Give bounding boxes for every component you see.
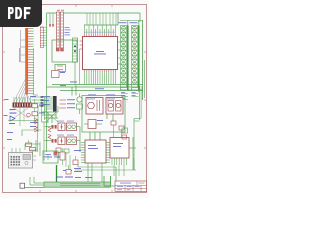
bottom mid labels [44, 157, 82, 172]
wire IC top feeds [87, 13, 116, 25]
net labels (blue) [65, 27, 71, 35]
jumper on bus [20, 183, 25, 188]
net label rows [60, 99, 76, 108]
wire drops to enclosure [72, 49, 80, 96]
PDF badge overlay [0, 0, 42, 27]
connector J2 (pin header) [40, 27, 46, 48]
transistor array Q1-Q13 (column 1) [121, 26, 128, 91]
keypad/display module MOD1 [9, 153, 37, 169]
wire crossing below A1 [14, 108, 28, 126]
transistor array Q14-Q26 (column 2) [132, 26, 139, 91]
wire opto feeds [42, 122, 81, 152]
wire relay to U2 [90, 114, 113, 140]
labels near R5 [39, 105, 45, 114]
wire keypad risers [44, 122, 45, 160]
wire mesh [42, 106, 58, 123]
connector J1 (left edge, orange body) [20, 28, 34, 95]
module A1 (striped header) [13, 97, 32, 108]
shield outline box [52, 40, 77, 62]
diode D1 box [84, 120, 103, 129]
optocoupler OC3/OC4 row [48, 137, 80, 145]
parts above U3 [111, 121, 124, 138]
relay K1 [86, 98, 103, 115]
scatter labels [30, 82, 77, 97]
relay K2 [106, 98, 123, 115]
op-amp U5 (left) [9, 109, 17, 124]
left margin labels [4, 99, 9, 116]
relay labels [88, 93, 115, 96]
wire mid bus A [52, 84, 143, 86]
sheet border frame [3, 5, 147, 193]
wire IC to columns [118, 42, 121, 64]
jumper JP1 [55, 65, 66, 72]
bus label row [56, 177, 92, 178]
title block [115, 181, 147, 191]
resistor R5 [32, 99, 38, 108]
wire U3 pin drops [114, 165, 124, 176]
pin header P2 (dark) [42, 96, 57, 122]
net flags right of A1 [32, 96, 44, 107]
parts below optos [56, 148, 81, 158]
wire right bus [133, 20, 145, 170]
wire top horizontal bus [47, 13, 141, 152]
small box right [122, 128, 128, 139]
extra lower-left wires [12, 120, 70, 170]
IC U1 (MCU) [80, 25, 118, 85]
labels opto [57, 121, 74, 136]
left mid wires [7, 130, 42, 150]
wire bottom bus left [25, 177, 45, 188]
wire to title block [104, 176, 115, 186]
resistor network RN2 [61, 12, 64, 51]
transistor Q30 [27, 113, 31, 117]
wire bus risers right [104, 167, 116, 186]
wire under ICs [75, 158, 136, 170]
wire mid bus C [60, 88, 143, 90]
wire bus drops [49, 10, 64, 27]
wire column feeds [121, 88, 143, 93]
IC U2 [81, 140, 110, 163]
resistor network RN1 [56, 12, 59, 51]
bottom bus band [44, 182, 111, 187]
IC U3 [110, 138, 136, 166]
net flag ladder below columns [121, 92, 139, 100]
resistor chain R10-R12 [48, 127, 51, 139]
wire thick riser [56, 165, 58, 182]
wire fan from J1 [14, 75, 31, 102]
wire bus above U1 [84, 13, 118, 25]
wire mid bus B [47, 86, 139, 88]
connector P4 (left of U1) [73, 38, 78, 85]
wire lower-left h [8, 106, 38, 132]
green enclosure mid [82, 96, 125, 133]
wire J1 collector [34, 48, 38, 95]
capacitor C1 [52, 71, 66, 78]
column labels (blue) [119, 21, 138, 24]
resistor zigzags R7/R8 [34, 118, 38, 132]
wire column top link [120, 21, 143, 26]
resistor R6 [32, 108, 38, 122]
resistors above keypad [26, 140, 41, 156]
wire U2 drops [88, 163, 102, 182]
small caps row [66, 156, 78, 174]
crystal Y1 [77, 94, 83, 115]
regulator VR1 [43, 148, 65, 165]
optocoupler OC1/OC2 row [48, 123, 80, 131]
